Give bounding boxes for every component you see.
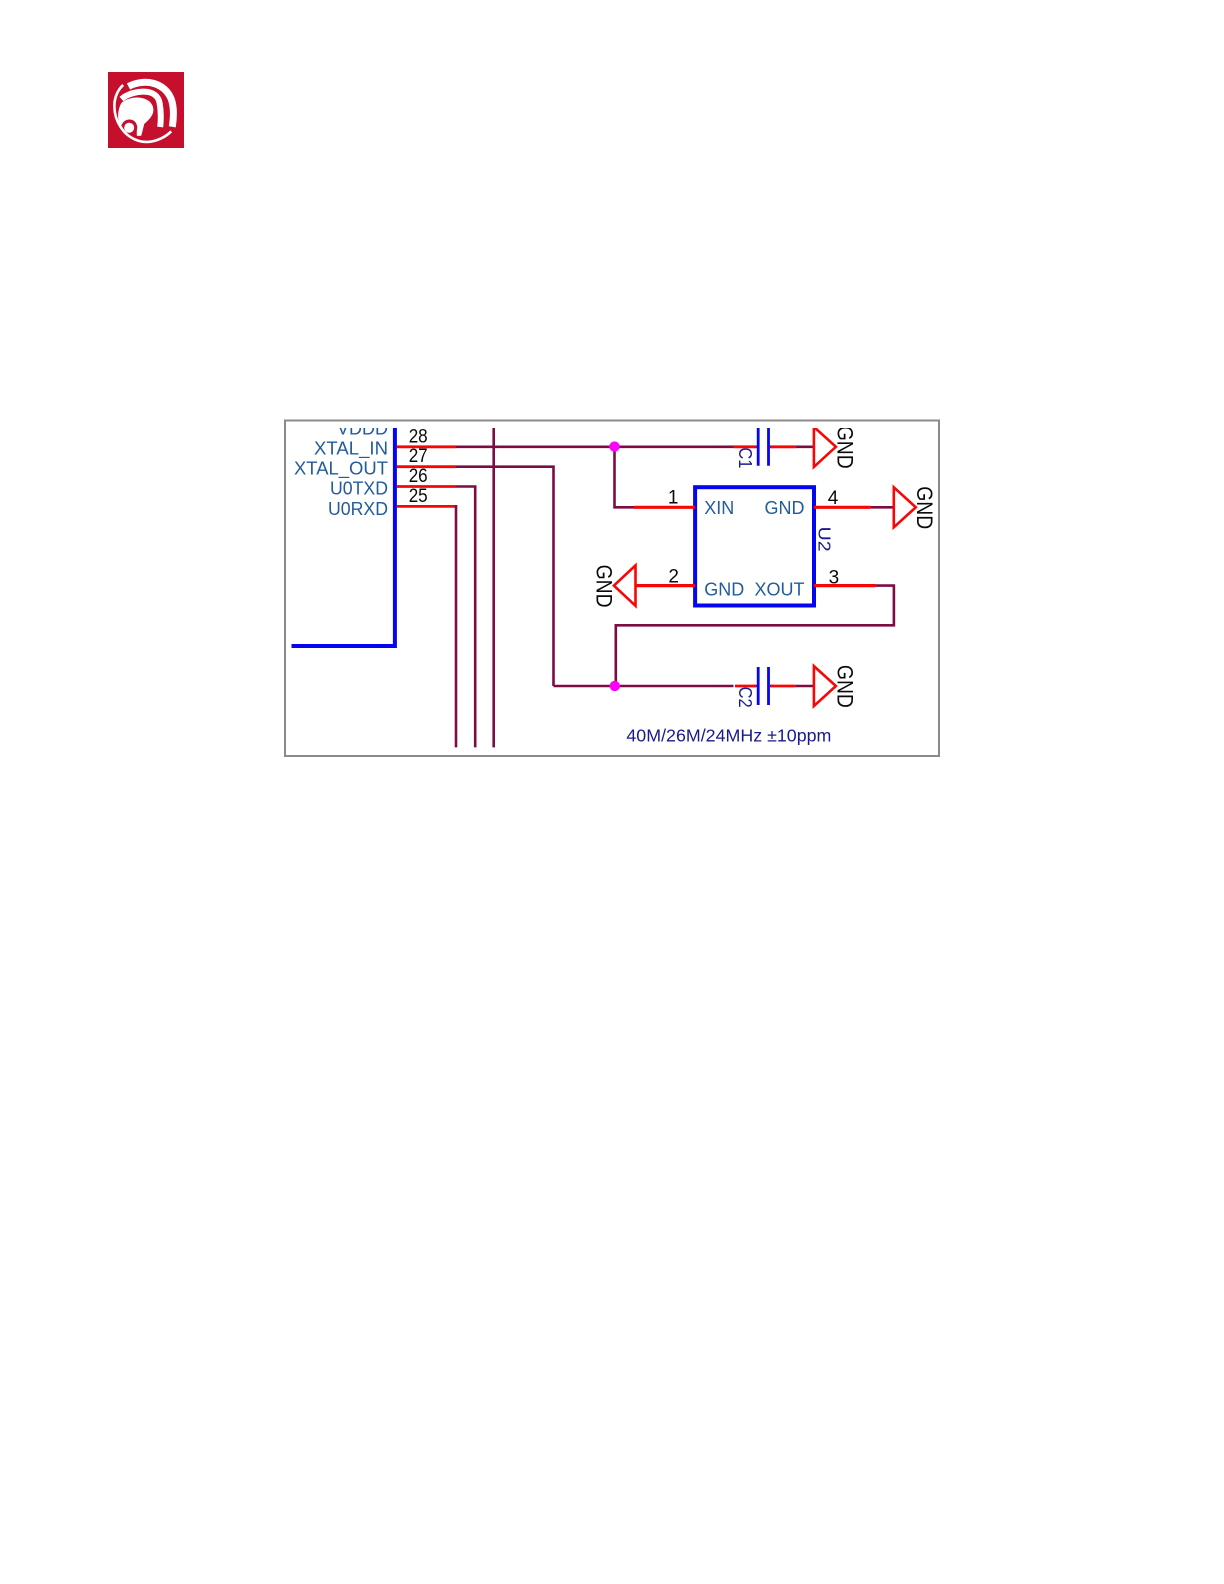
U2 pin 1 stub xyxy=(634,506,695,509)
capacitor C1 xyxy=(734,428,796,466)
svg-text:U0TXD: U0TXD xyxy=(330,478,388,499)
wire XTAL_IN net horizontal xyxy=(456,445,734,448)
pin number 2 xyxy=(668,566,679,587)
wire XOUT loop xyxy=(616,586,894,686)
wire XTAL_OUT net xyxy=(456,467,554,686)
pin number 28 xyxy=(409,426,428,447)
pin number 25 xyxy=(409,486,428,507)
svg-text:3: 3 xyxy=(829,568,840,589)
svg-text:GND: GND xyxy=(832,426,857,469)
U2 reference designator xyxy=(814,527,834,552)
svg-text:40M/26M/24MHz ±10ppm: 40M/26M/24MHz ±10ppm xyxy=(626,726,831,746)
svg-text:GND: GND xyxy=(592,565,617,608)
pin number 27 xyxy=(409,446,428,467)
svg-text:GND: GND xyxy=(912,486,937,529)
frequency note xyxy=(626,726,831,746)
wire passing vertical net xyxy=(492,428,495,747)
pin label U0TXD xyxy=(330,478,388,499)
circuit schematic xyxy=(284,419,941,758)
wire U0TXD net xyxy=(456,487,477,748)
ground label (C1) xyxy=(832,426,857,469)
pin label XTAL_IN xyxy=(314,438,388,460)
svg-text:U2: U2 xyxy=(814,527,834,552)
U2 pin 4 stub xyxy=(814,506,871,509)
wave 2 (middle) xyxy=(122,92,161,127)
U2 pin name XIN xyxy=(704,498,734,518)
U2 pin name GND (bottom) xyxy=(704,580,744,600)
svg-text:XTAL_IN: XTAL_IN xyxy=(314,438,388,460)
pin label XTAL_OUT xyxy=(294,458,388,480)
U2 pin 2 stub xyxy=(636,584,696,587)
svg-text:C1: C1 xyxy=(735,447,755,468)
Espressif logo xyxy=(108,72,184,148)
ground symbol (pin 4) xyxy=(894,487,916,527)
svg-text:GND: GND xyxy=(832,665,857,708)
pin 26 stub xyxy=(397,485,456,488)
svg-text:2: 2 xyxy=(668,566,679,587)
wire pin4 to GND xyxy=(871,506,893,509)
svg-text:U0RXD: U0RXD xyxy=(328,498,388,519)
ground label (pin 4) xyxy=(912,486,937,529)
wave 1 / central blob xyxy=(118,97,153,135)
pin 28 stub xyxy=(397,445,456,448)
pin number 3 xyxy=(829,568,840,589)
svg-text:26: 26 xyxy=(409,466,428,487)
ground symbol (C2) xyxy=(814,666,836,706)
schematic frame xyxy=(285,421,939,757)
svg-text:1: 1 xyxy=(668,487,679,508)
svg-text:XTAL_OUT: XTAL_OUT xyxy=(294,458,388,480)
C1 label xyxy=(735,447,755,468)
U2 pin 3 stub xyxy=(814,584,875,587)
IC (parent chip) symbol edge xyxy=(292,424,397,646)
wave 3 (outer) xyxy=(129,82,174,127)
wire bottom net horizontal xyxy=(554,685,734,688)
dot xyxy=(124,123,134,133)
svg-text:XOUT: XOUT xyxy=(754,580,804,600)
pin 27 stub xyxy=(397,465,456,468)
pin 25 stub xyxy=(397,505,457,508)
wire C1 to GND xyxy=(796,445,814,448)
ground label (C2) xyxy=(832,665,857,708)
wire XIN drop from junction xyxy=(615,447,635,508)
ground symbol (C1) xyxy=(814,427,836,467)
U2 pin name XOUT xyxy=(754,580,804,600)
svg-text:GND: GND xyxy=(765,498,805,518)
svg-text:GND: GND xyxy=(704,580,744,600)
capacitor C2 xyxy=(735,667,796,705)
svg-text:4: 4 xyxy=(828,488,839,509)
wire U0RXD net vertical xyxy=(455,505,458,747)
svg-text:C2: C2 xyxy=(735,687,755,708)
svg-text:28: 28 xyxy=(409,426,428,447)
pin number 1 xyxy=(668,487,679,508)
pin number 4 xyxy=(828,488,839,509)
C2 label xyxy=(735,687,755,708)
pin label U0RXD xyxy=(328,498,388,519)
junction bottom (XTAL_OUT / XOUT) xyxy=(610,681,620,691)
pin label VDDD xyxy=(337,418,388,439)
ground symbol (pin 2) xyxy=(614,565,636,605)
junction top (XTAL_IN / XIN) xyxy=(609,441,619,451)
svg-text:XIN: XIN xyxy=(704,498,734,518)
svg-text:27: 27 xyxy=(409,446,428,467)
wire C2 to GND xyxy=(796,685,814,688)
U2 pin name GND (top) xyxy=(765,498,805,518)
ground label (pin 2) xyxy=(592,565,617,608)
thin outline spiral xyxy=(114,85,171,142)
pin number 26 xyxy=(409,466,428,487)
crystal U2 box xyxy=(695,487,814,605)
svg-text:25: 25 xyxy=(409,486,428,507)
